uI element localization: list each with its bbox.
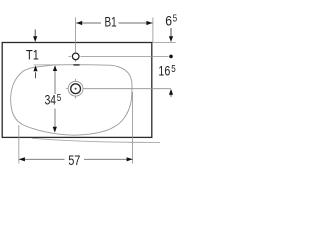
34.5 dimension line xyxy=(54,71,56,94)
T1 up arrow xyxy=(33,65,37,71)
front edge curve below rectangle xyxy=(32,138,160,142)
57 dimension line right segment xyxy=(84,158,133,160)
svg-text:5: 5 xyxy=(171,63,176,75)
57 left extension line xyxy=(18,125,20,164)
6.5 down arrow xyxy=(170,28,172,38)
B1 right extension line xyxy=(152,18,154,43)
57 right extension line xyxy=(132,92,134,164)
washbasin outer rectangle outline xyxy=(2,43,152,138)
16.5 up arrow xyxy=(169,89,173,95)
57 dimension line left segment xyxy=(19,158,65,160)
tap hole vertical centerline (B1 left extension) xyxy=(75,18,77,53)
drain hole bottom tick xyxy=(75,96,77,98)
57 right arrowhead xyxy=(127,157,133,161)
B1 dimension line left segment xyxy=(76,22,101,24)
tap hole horizontal centerline to right dot xyxy=(81,55,169,57)
svg-text:34: 34 xyxy=(45,92,57,108)
drain hole top tick xyxy=(75,79,77,81)
basin rear rim straight edge line xyxy=(34,64,61,66)
tap hole lower tick xyxy=(75,60,77,62)
svg-text:6: 6 xyxy=(165,12,172,28)
drain hole left tick xyxy=(66,88,68,90)
svg-text:B1: B1 xyxy=(105,13,117,29)
tap hole left tick xyxy=(68,55,70,57)
drain hole outer circle xyxy=(68,81,83,96)
57 left arrowhead xyxy=(19,157,25,161)
B1 dimension line right segment xyxy=(119,22,153,24)
drain hole bold circle xyxy=(71,84,81,94)
B1 left arrowhead xyxy=(76,21,82,25)
T1 down arrow xyxy=(34,30,36,38)
shared boundary dot at tap line xyxy=(169,55,173,59)
34.5 down arrowhead xyxy=(53,127,57,133)
svg-text:16: 16 xyxy=(158,63,170,79)
svg-text:5: 5 xyxy=(57,92,62,104)
basin inner bowl outline xyxy=(11,65,132,135)
svg-text:57: 57 xyxy=(68,152,80,168)
drain hole horizontal centerline to 16.5 arrow xyxy=(83,88,171,90)
34.5 up arrowhead xyxy=(53,65,57,71)
svg-text:5: 5 xyxy=(173,13,178,25)
B1 right arrowhead xyxy=(146,21,152,25)
overflow dash on basin rear edge xyxy=(73,64,79,66)
6.5 extension line (top edge extended right) xyxy=(153,41,176,43)
tap hole circle xyxy=(72,53,79,60)
svg-text:T1: T1 xyxy=(26,46,39,62)
drain hole center dot xyxy=(75,88,77,90)
